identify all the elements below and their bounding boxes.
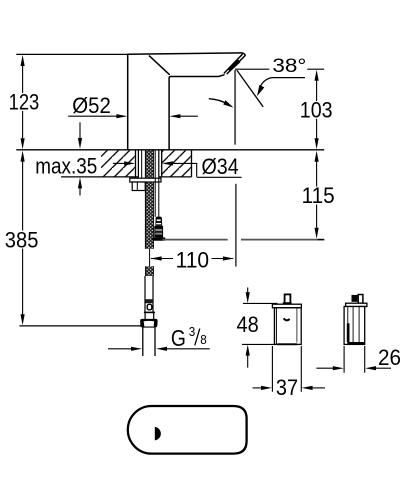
sensor curved arrow bbox=[209, 99, 228, 105]
G3/8 dimension arrows bbox=[108, 348, 131, 350]
washer under deck bbox=[130, 178, 161, 182]
dimension 103 bbox=[315, 70, 319, 81]
svg-text:G: G bbox=[171, 325, 186, 351]
svg-text:115: 115 bbox=[302, 183, 335, 208]
dimension 110 bbox=[151, 258, 173, 260]
control box front view: top nipple bbox=[285, 294, 291, 304]
spout top view sensor window bbox=[155, 427, 161, 441]
dimension 115 bbox=[315, 151, 319, 162]
deck right edge bbox=[191, 150, 193, 177]
control box side view: body bbox=[344, 307, 365, 345]
mounting hole walls bbox=[136, 151, 162, 177]
mounting nut bbox=[132, 182, 145, 191]
water stream line (gray) bbox=[234, 70, 236, 145]
lower hose knurl piece bbox=[146, 266, 154, 276]
svg-text:48: 48 bbox=[237, 312, 259, 337]
wire tip extension line to right bbox=[235, 68, 324, 70]
svg-text:8: 8 bbox=[200, 332, 207, 347]
control box side view: connectors bbox=[352, 295, 358, 302]
svg-text:38°: 38° bbox=[272, 56, 306, 77]
max.35 down arrow bbox=[79, 122, 81, 138]
dimension 123 vertical line with arrows bbox=[22, 66, 24, 139]
D34 label underline bbox=[197, 176, 242, 178]
dimension 385 vertical line with arrows bbox=[22, 162, 24, 315]
deck hatching left block bbox=[101, 151, 136, 177]
shank inner lines bbox=[142, 151, 156, 179]
D34 dimension arrows bbox=[113, 162, 125, 164]
wire 110 vertical extension line bbox=[235, 184, 237, 267]
svg-text:3: 3 bbox=[189, 324, 196, 339]
control box front view: logo mark bbox=[284, 318, 290, 320]
svg-text:Ø34: Ø34 bbox=[202, 154, 239, 179]
gray hose-connection reference line bbox=[162, 239, 317, 241]
max.35 up arrow below deck bbox=[79, 188, 81, 195]
G3/8 pipe bbox=[143, 327, 155, 356]
wire bottom extension line (G3/8 level) bbox=[19, 325, 141, 327]
deck bottom line bbox=[61, 176, 191, 178]
svg-text:37: 37 bbox=[276, 375, 298, 400]
spout top view outline bbox=[128, 406, 247, 454]
outlet face dark wedge bbox=[228, 60, 241, 72]
38deg curved leader arrow bbox=[259, 78, 305, 89]
dimension 48 bbox=[243, 302, 278, 304]
connector collar walls bbox=[145, 313, 154, 319]
G3/8 nut bbox=[140, 319, 157, 328]
cable plug connector bbox=[152, 217, 165, 241]
threaded shank knurl bbox=[145, 151, 153, 249]
black stub of reference line bbox=[317, 239, 324, 241]
deck top line bbox=[16, 149, 324, 151]
svg-text:385: 385 bbox=[5, 227, 39, 252]
deck hatching right block bbox=[162, 151, 192, 177]
control box side view: bottom band bbox=[348, 342, 365, 344]
control box front view: bottom band bbox=[278, 343, 298, 345]
hose fitting dark band bbox=[145, 299, 153, 303]
control box front view: body bbox=[274, 308, 301, 345]
svg-text:123: 123 bbox=[9, 90, 40, 115]
hose fitting slot detail bbox=[147, 304, 152, 310]
spout tip outlet face (38deg sliver) bbox=[224, 53, 245, 74]
dimension 26 bbox=[344, 346, 365, 373]
control box front view: lid bbox=[272, 304, 301, 308]
svg-text:26: 26 bbox=[378, 345, 401, 370]
svg-text:Ø52: Ø52 bbox=[72, 93, 111, 118]
wire top extension line (spout top level) bbox=[16, 53, 127, 55]
svg-text:110: 110 bbox=[176, 248, 210, 273]
hose tube bbox=[145, 276, 153, 313]
38deg angle ray bbox=[237, 70, 263, 107]
hose break center line bbox=[149, 249, 151, 266]
dimension 37 bbox=[272, 346, 301, 392]
control box side view: lid bbox=[346, 303, 367, 306]
sensor cable bbox=[155, 178, 159, 217]
faucet spout/body outline bbox=[127, 53, 242, 149]
shank tube walls bbox=[138, 151, 158, 178]
svg-text:max.35: max.35 bbox=[35, 153, 97, 178]
